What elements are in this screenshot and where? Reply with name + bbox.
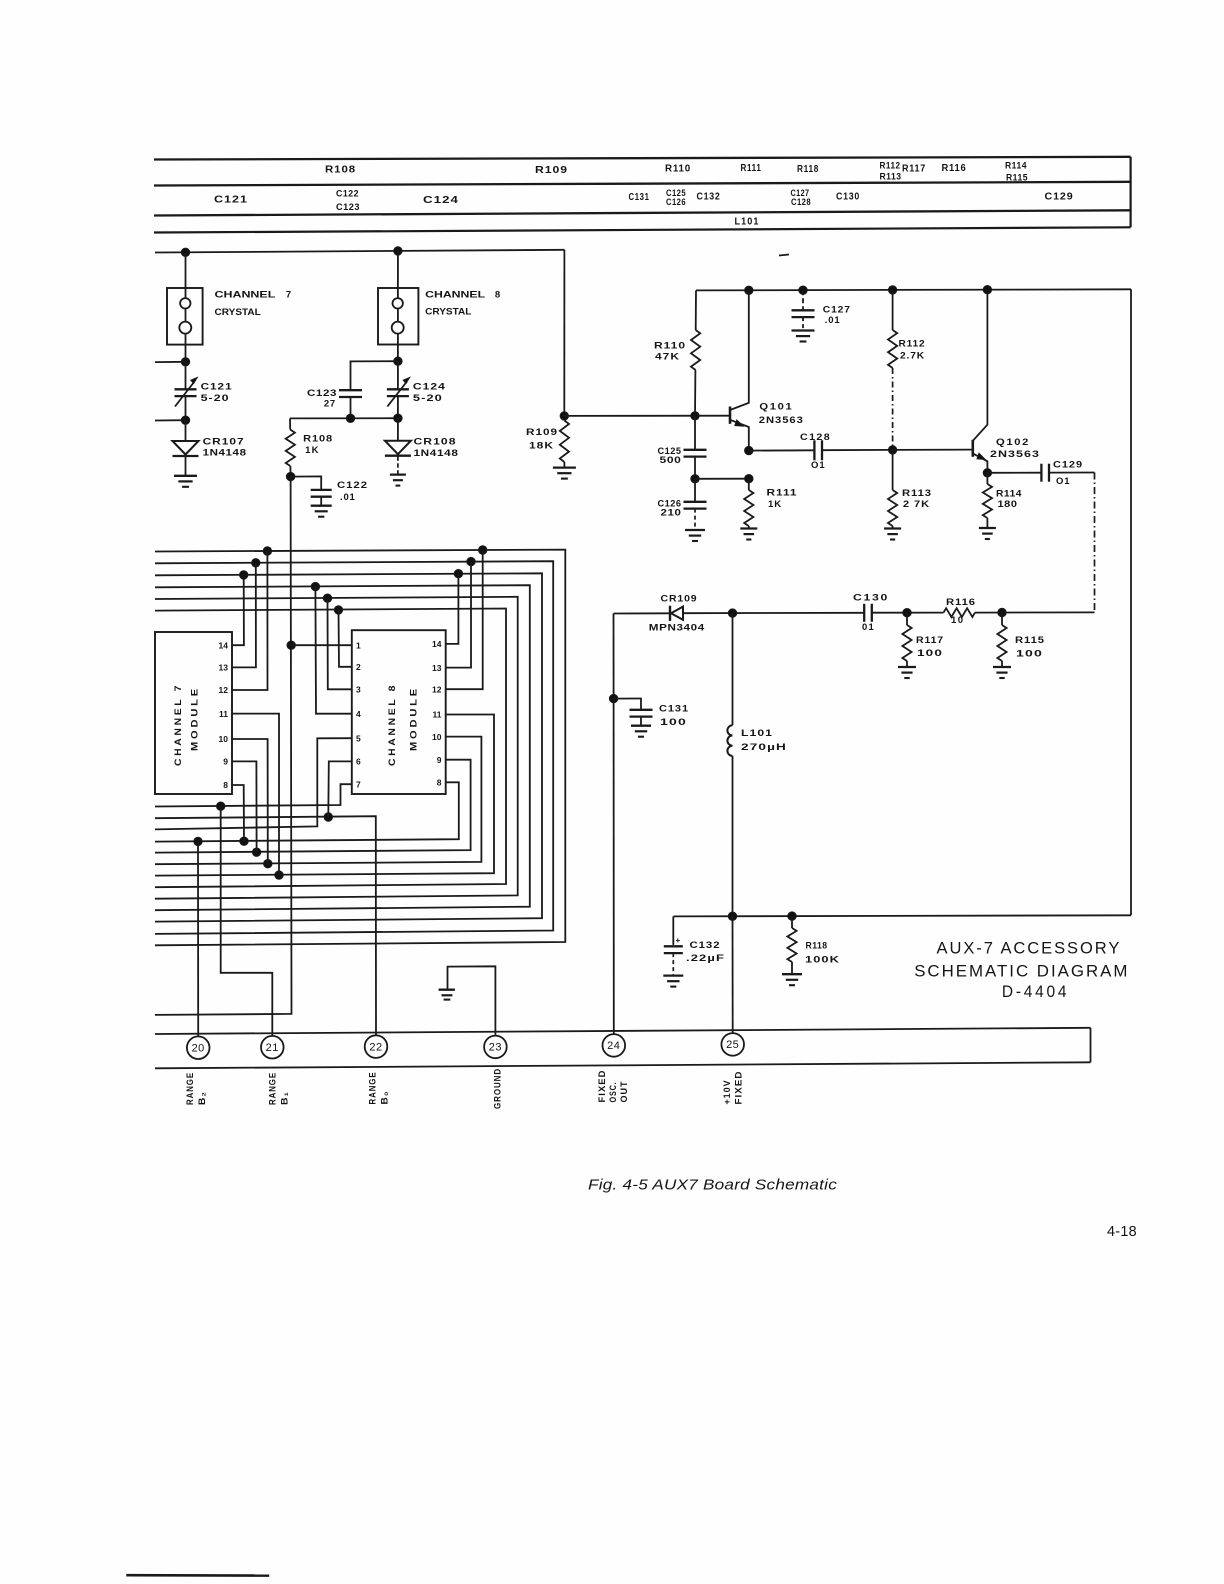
junction line4/pin20 — [194, 837, 202, 845]
label C132 value — [686, 940, 725, 964]
svg-text:4-18: 4-18 — [1107, 1223, 1137, 1240]
label RANGE B0 — [368, 1072, 390, 1105]
wire Y2 column upper — [397, 251, 399, 361]
label R116 — [942, 163, 967, 174]
page number — [1107, 1223, 1137, 1240]
svg-text:13: 13 — [219, 663, 229, 673]
svg-text:CRYSTAL: CRYSTAL — [215, 307, 261, 318]
svg-text:270µH: 270µH — [741, 742, 787, 753]
label R109 — [526, 427, 558, 452]
label FIXED OSC OUT — [597, 1070, 629, 1103]
svg-text:C127: C127 — [823, 305, 851, 316]
crystal Y1 CHANNEL 7 — [167, 288, 203, 345]
stray mark — [779, 255, 789, 256]
svg-text:CHANNEL: CHANNEL — [215, 290, 276, 301]
junction H2/pin13 ch8 — [467, 557, 475, 565]
svg-text:5: 5 — [356, 733, 361, 743]
ground R117 — [898, 667, 916, 678]
capacitor C129 — [1041, 464, 1049, 482]
svg-text:C129: C129 — [1045, 192, 1074, 203]
connector pin 25 — [721, 1033, 744, 1056]
svg-text:R118: R118 — [797, 164, 819, 175]
wire locator band line 4 — [154, 227, 1131, 232]
junction R118/bottom rail — [788, 912, 796, 920]
capacitor C121 (variable) — [175, 362, 197, 420]
label L101 — [741, 728, 787, 753]
junction R112/main rail — [888, 286, 896, 294]
svg-text:100: 100 — [917, 648, 943, 659]
svg-text:C123: C123 — [336, 202, 360, 212]
ground C131 — [631, 726, 651, 737]
wire net line5 (pins 9) — [155, 760, 471, 853]
junction C123/base rail — [346, 414, 354, 422]
label R118 — [797, 164, 819, 175]
svg-text:20: 20 — [192, 1043, 205, 1055]
label R117 — [902, 163, 926, 174]
junction R117/output rail — [903, 609, 911, 617]
junction L101/bottom rail — [728, 912, 736, 920]
label CRYSTAL (Y2) — [425, 307, 471, 318]
svg-text:O1: O1 — [1056, 476, 1070, 487]
junction top rail / Y1 — [181, 248, 189, 256]
svg-text:C122: C122 — [336, 189, 359, 199]
wire pin6 ch8 — [328, 761, 352, 817]
label R111 — [741, 163, 762, 174]
svg-text:23: 23 — [489, 1042, 502, 1054]
connector pin 23 — [484, 1036, 507, 1059]
svg-text:10: 10 — [219, 734, 229, 744]
ground C122 — [311, 506, 332, 517]
label RANGE B1 — [268, 1072, 290, 1105]
wire pin13 ch7 — [232, 563, 256, 668]
label C128 — [791, 197, 811, 207]
svg-text:13: 13 — [432, 663, 442, 673]
wire net H1 (pins 12) — [155, 550, 565, 946]
svg-text:R114: R114 — [996, 489, 1022, 500]
diode CR107 — [173, 420, 199, 475]
wire emitter-C129 — [987, 472, 1041, 474]
svg-text:C124: C124 — [413, 382, 446, 393]
wire pin20 feeder — [197, 841, 199, 1036]
junction line5/pin9 ch7 — [252, 848, 260, 856]
svg-text:10: 10 — [432, 732, 442, 742]
svg-text:C132: C132 — [697, 192, 721, 203]
title line 2 — [914, 962, 1129, 981]
svg-text:C132: C132 — [690, 940, 721, 951]
svg-text:Q101: Q101 — [759, 402, 793, 413]
label R111 — [767, 488, 798, 511]
resistor R116 — [944, 608, 976, 617]
svg-text:2.7K: 2.7K — [900, 350, 925, 361]
svg-text:5-20: 5-20 — [413, 393, 443, 404]
svg-text:CHANNEL: CHANNEL — [425, 290, 485, 301]
wire C129 out — [1049, 472, 1095, 474]
junction R115/output rail — [998, 608, 1006, 616]
svg-text:14: 14 — [432, 639, 442, 649]
svg-text:R112: R112 — [880, 160, 901, 170]
svg-text:R108: R108 — [303, 434, 333, 445]
resistor R118 — [787, 916, 796, 974]
wire pin13 ch8 — [446, 562, 471, 668]
capacitor C130 — [864, 604, 872, 622]
wire Q102 base — [893, 449, 973, 451]
svg-text:R110: R110 — [654, 341, 686, 352]
label C132 — [697, 192, 721, 203]
svg-text:SCHEMATIC DIAGRAM: SCHEMATIC DIAGRAM — [914, 962, 1129, 981]
svg-text:25: 25 — [726, 1039, 739, 1051]
junction line1/pin21 — [217, 802, 225, 810]
wire C129 drop — [1094, 473, 1096, 613]
label C129 — [1045, 192, 1074, 203]
resistor R111 — [744, 479, 753, 529]
resistor R108 — [286, 418, 295, 476]
pin numbers CHANNEL 7 MODULE — [219, 640, 229, 790]
label GROUND — [493, 1068, 503, 1109]
wire pin4 ch8 — [315, 587, 351, 714]
capacitor C127 — [792, 290, 815, 330]
svg-text:C130: C130 — [836, 192, 860, 203]
svg-text:180: 180 — [998, 499, 1018, 510]
label CHANNEL 8 MODULE — [387, 683, 420, 766]
label R115 — [1015, 635, 1045, 660]
wire output rail d — [975, 611, 1095, 613]
connector pin 20 — [187, 1036, 210, 1059]
svg-text:12: 12 — [432, 684, 442, 694]
svg-text:+10VFIXED: +10VFIXED — [722, 1071, 744, 1105]
connector pin 24 — [603, 1034, 626, 1057]
junction top rail / Y2 — [394, 247, 402, 255]
label C123 — [336, 202, 360, 212]
IC CHANNEL 7 MODULE — [155, 632, 232, 794]
junction R111 top — [745, 475, 753, 483]
svg-text:C131: C131 — [659, 704, 689, 715]
wire output to pin 24 upper — [613, 614, 615, 699]
svg-text:Q102: Q102 — [996, 437, 1030, 448]
svg-text:CR109: CR109 — [661, 594, 698, 605]
label C122 — [336, 189, 359, 199]
node C121/CR107 — [155, 416, 190, 424]
svg-text:RANGEB₁: RANGEB₁ — [268, 1072, 290, 1105]
label R112 — [899, 339, 926, 362]
ground CR107 — [174, 476, 197, 487]
svg-text:RANGEB₂: RANGEB₂ — [185, 1072, 207, 1105]
resistor R115 — [997, 613, 1006, 667]
label C127 — [791, 188, 810, 198]
label R117 — [916, 635, 944, 659]
svg-text:9: 9 — [223, 757, 228, 767]
ground R115 — [993, 667, 1011, 678]
label +10V FIXED — [722, 1071, 744, 1105]
label C123 value — [307, 388, 337, 409]
svg-text:Fig. 4-5 AUX7 Board Schema: Fig. 4-5 AUX7 Board Schematic — [588, 1177, 837, 1194]
connector pin 21 — [261, 1036, 284, 1059]
connector strip top — [155, 1028, 1091, 1034]
wire pin2 ch8 — [339, 610, 352, 667]
svg-text:11: 11 — [219, 709, 228, 719]
svg-text:R117: R117 — [902, 163, 926, 174]
svg-text:RANGEB₀: RANGEB₀ — [368, 1072, 390, 1105]
svg-text:100: 100 — [1016, 649, 1043, 660]
label R115 — [1006, 173, 1028, 183]
node Y2/C123/C124 — [394, 357, 402, 365]
wire Y1 column upper — [185, 252, 187, 361]
connector strip right edge — [1090, 1028, 1092, 1063]
blue underline mark — [126, 1574, 269, 1577]
resistor R114 — [983, 473, 992, 528]
ground R109 — [553, 468, 576, 479]
label CHANNEL 7 — [215, 290, 292, 301]
capacitor C123 — [339, 361, 398, 418]
capacitor C132 — [664, 916, 683, 975]
junction L101/output rail — [728, 609, 736, 617]
label C125 value — [658, 446, 682, 466]
svg-text:14: 14 — [219, 640, 229, 650]
wire pin11 ch7 — [232, 714, 279, 876]
junction H6/pin2 — [334, 606, 342, 614]
label CHANNEL 8 — [425, 290, 500, 301]
junction line7/pin11 ch7 — [275, 871, 283, 879]
svg-text:R110: R110 — [665, 163, 691, 174]
wire pin3 ch8 — [328, 598, 352, 689]
wire pin12 ch7 — [232, 551, 268, 690]
wire bottom rail — [673, 915, 1131, 916]
svg-text:R111: R111 — [767, 488, 798, 499]
title line 1 — [937, 939, 1122, 958]
ground at pin 23 — [439, 966, 496, 1035]
svg-text:21: 21 — [266, 1042, 279, 1054]
label C127 value — [823, 305, 851, 327]
transistor Q101 — [730, 290, 749, 450]
junction H3/pin14 ch7 — [240, 571, 248, 579]
junction line4/pin8 ch7 — [240, 837, 248, 845]
label CR107 — [203, 436, 247, 458]
label C121 value — [201, 382, 233, 404]
svg-text:D-4404: D-4404 — [1002, 982, 1069, 1001]
wire top rail — [155, 250, 564, 253]
caption figure — [588, 1177, 837, 1194]
svg-text:C126: C126 — [666, 197, 686, 207]
svg-text:C128: C128 — [800, 432, 831, 443]
svg-text:2N3563: 2N3563 — [759, 415, 804, 426]
capacitor C125 — [684, 416, 707, 479]
transistor Q102 — [973, 290, 988, 473]
label RANGE B2 — [185, 1072, 207, 1105]
label CR109 — [649, 594, 705, 634]
arrow of C124 — [387, 378, 409, 407]
svg-text:100K: 100K — [805, 955, 840, 966]
wire main rail — [696, 289, 1131, 290]
svg-text:8: 8 — [223, 780, 228, 790]
wire locator band right edge — [1129, 157, 1131, 228]
junction Q101 emitter/C128 — [745, 446, 753, 454]
arrow of C121 — [175, 378, 197, 407]
svg-text:2 7K: 2 7K — [903, 499, 930, 510]
wire pin14 ch7 — [232, 575, 244, 645]
pin numbers CHANNEL 8 MODULE left — [356, 640, 361, 789]
label C124 value — [413, 382, 446, 404]
label Q102 — [990, 437, 1040, 460]
ground C132 — [663, 976, 683, 987]
junction R109/base rail — [560, 412, 568, 420]
wire C128-node — [822, 449, 893, 451]
svg-text:MODULE: MODULE — [409, 686, 420, 751]
junction H2/pin13 ch7 — [252, 559, 260, 567]
svg-text:R115: R115 — [1015, 635, 1045, 646]
junction C128/R113/Q102base — [888, 446, 896, 454]
wire output rail c — [872, 612, 944, 614]
connector strip bottom — [155, 1062, 1091, 1068]
svg-text:C122: C122 — [337, 480, 368, 491]
svg-text:24: 24 — [607, 1040, 620, 1052]
svg-text:.01: .01 — [825, 315, 841, 326]
svg-text:R118: R118 — [806, 941, 828, 952]
IC CHANNEL 8 MODULE — [352, 630, 446, 794]
svg-text:AUX-7 ACCESSORY: AUX-7 ACCESSORY — [937, 939, 1122, 958]
ground C126 — [685, 530, 705, 541]
wire net line2 (pin 6 / pin 22) — [155, 816, 376, 1036]
svg-text:CRYSTAL: CRYSTAL — [425, 307, 471, 318]
label C126 value — [658, 499, 682, 519]
wire locator band line 1 — [154, 157, 1131, 160]
svg-text:C131: C131 — [629, 192, 650, 203]
junction Q101 collector/main rail — [745, 286, 753, 294]
wire R109 drop — [563, 250, 565, 416]
label R114 — [996, 489, 1022, 511]
svg-text:2: 2 — [356, 662, 361, 672]
svg-text:R109: R109 — [535, 165, 568, 176]
ground R113 — [884, 529, 901, 540]
svg-text:8: 8 — [437, 778, 442, 788]
svg-text:27: 27 — [324, 399, 336, 410]
connector pin 22 — [365, 1035, 388, 1058]
junction pin1 ch8 — [287, 641, 295, 649]
svg-text:R114: R114 — [1005, 161, 1027, 171]
label C131 value — [659, 704, 689, 729]
junction line6/pin10 ch7 — [264, 860, 272, 868]
label R113 — [902, 488, 932, 510]
label C124 — [423, 195, 459, 206]
junction H5/pin3 — [323, 594, 331, 602]
wire pin25 drop — [732, 916, 734, 1033]
resistor R117 — [902, 613, 911, 667]
label R108 — [325, 165, 356, 176]
label C128 value — [800, 432, 831, 471]
label C129 value — [1053, 460, 1083, 488]
svg-text:C130: C130 — [853, 593, 889, 604]
wire locator band line 3 — [154, 210, 1131, 215]
svg-text:R115: R115 — [1006, 173, 1028, 183]
label C125 — [666, 188, 686, 198]
svg-text:12: 12 — [219, 685, 229, 695]
wire output rail a — [614, 612, 671, 614]
junction line2/pin6 — [324, 813, 332, 821]
junction R110/base — [691, 412, 699, 420]
svg-text:47K: 47K — [655, 352, 680, 363]
wire net line3 (pin 5) — [155, 738, 352, 829]
svg-text:CR108: CR108 — [414, 436, 457, 447]
svg-text:1K: 1K — [768, 499, 782, 510]
junction C125/C126 — [691, 475, 699, 483]
junction C131 — [609, 694, 617, 702]
svg-text:3: 3 — [356, 685, 361, 695]
svg-text:.22µF: .22µF — [686, 953, 725, 964]
resistor R110 — [691, 290, 700, 415]
svg-text:.01: .01 — [340, 492, 356, 503]
svg-text:9: 9 — [437, 755, 442, 765]
label L101 band — [735, 217, 760, 228]
diode CR109 — [670, 606, 683, 621]
svg-text:6: 6 — [356, 757, 361, 767]
title line 3 — [1002, 982, 1069, 1001]
pin numbers CHANNEL 8 MODULE right — [432, 639, 442, 787]
svg-text:R111: R111 — [741, 163, 762, 174]
capacitor C124 (variable) — [387, 361, 409, 418]
svg-text:CR107: CR107 — [203, 436, 245, 447]
wire pin8 ch7 — [232, 785, 244, 841]
svg-text:GROUND: GROUND — [493, 1068, 503, 1109]
svg-text:10: 10 — [951, 615, 965, 626]
wire net line7 (pins 11) — [155, 715, 494, 876]
wire net H5 (pin 3) — [155, 597, 518, 899]
wire pin12 ch8 — [446, 550, 483, 689]
svg-text:R116: R116 — [942, 163, 967, 174]
svg-text:22: 22 — [369, 1041, 382, 1053]
junction C124/CR108 — [394, 414, 402, 422]
wire net R108 drop (pin 1) — [155, 477, 292, 1015]
wire C125-R111 — [695, 478, 749, 480]
label R110 — [665, 163, 691, 174]
label CR108 — [414, 436, 459, 459]
junction R108/C122 — [286, 472, 294, 480]
wire net H2 (pins 13) — [155, 561, 553, 934]
svg-text:R117: R117 — [916, 635, 944, 646]
label C130 — [836, 192, 860, 203]
svg-text:FIXEDOSC.OUT: FIXEDOSC.OUT — [597, 1070, 629, 1103]
resistor R112 — [888, 290, 897, 450]
resistor R113 — [888, 450, 897, 528]
svg-text:1N4148: 1N4148 — [414, 448, 459, 459]
label R109 — [535, 165, 568, 176]
wire output to pin 24 lower — [613, 699, 615, 1037]
wire right edge — [1130, 289, 1132, 915]
junction Q102 emitter/C129 — [983, 469, 991, 477]
svg-text:01: 01 — [862, 622, 875, 633]
wire net H6 (pin 2) — [155, 609, 506, 888]
svg-text:O1: O1 — [811, 460, 826, 471]
junction Q102 collector/main rail — [983, 286, 991, 294]
resistor R109 — [560, 421, 569, 468]
wire net line6 (pins 10) — [155, 737, 481, 865]
ground R118 — [782, 974, 802, 985]
ground C127 — [792, 331, 815, 342]
svg-text:C129: C129 — [1053, 460, 1083, 471]
wire pin10 ch7 — [232, 739, 268, 864]
svg-text:R116: R116 — [946, 597, 976, 608]
label R118 — [805, 941, 840, 966]
wire base rail left — [290, 417, 398, 419]
svg-text:C124: C124 — [423, 195, 459, 206]
svg-text:C121: C121 — [214, 195, 248, 206]
svg-text:R112: R112 — [899, 339, 926, 350]
svg-text:18K: 18K — [529, 441, 554, 452]
svg-text:2N3563: 2N3563 — [990, 449, 1040, 460]
junction H3/pin14 ch8 — [454, 570, 462, 578]
wire base rail right — [564, 415, 730, 417]
wire pin9 ch7 — [232, 761, 257, 852]
label C131 — [629, 192, 650, 203]
junction H1/pin12 ch8 — [479, 546, 487, 554]
svg-text:1: 1 — [356, 640, 361, 650]
